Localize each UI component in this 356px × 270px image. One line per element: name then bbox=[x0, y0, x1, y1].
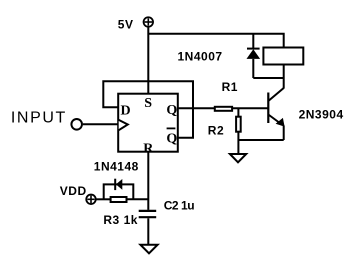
wire relay box bottom to collector bbox=[283, 66, 285, 89]
svg-text:R3 1k: R3 1k bbox=[103, 213, 138, 227]
wire Q output to R1 bbox=[178, 107, 215, 109]
svg-text:S: S bbox=[144, 96, 152, 111]
resistor R3 bbox=[111, 197, 127, 202]
power terminal 5V bbox=[144, 17, 154, 27]
wire feedback Qbar to D bbox=[103, 81, 193, 137]
wire R1 to base bbox=[232, 107, 268, 109]
svg-text:INPUT: INPUT bbox=[11, 110, 67, 127]
input terminal bbox=[71, 119, 82, 130]
flip-flop U1 bbox=[118, 94, 178, 152]
svg-text:R: R bbox=[143, 142, 154, 157]
wire diode top branch bbox=[252, 34, 254, 49]
wire emitter to ground rail bbox=[238, 139, 283, 141]
wire VDD to R3 bbox=[96, 198, 110, 200]
wire 5V rail to relay branch bbox=[148, 34, 283, 47]
svg-text:2N3904: 2N3904 bbox=[299, 108, 344, 122]
power terminal VDD bbox=[86, 195, 96, 205]
svg-text:5V: 5V bbox=[118, 18, 134, 32]
wire diode bottom to collector branch bbox=[253, 77, 283, 79]
svg-text:VDD: VDD bbox=[60, 184, 87, 198]
pin Qbar bbox=[166, 128, 177, 146]
diode D1 1N4007 bbox=[247, 49, 261, 78]
svg-text:Q: Q bbox=[166, 132, 177, 147]
wire base node down to R2 bbox=[237, 108, 239, 117]
svg-text:C2 1u: C2 1u bbox=[164, 199, 195, 213]
svg-text:Q: Q bbox=[166, 103, 177, 118]
svg-text:1N4007: 1N4007 bbox=[178, 50, 223, 64]
wire C2 to ground bbox=[147, 218, 149, 244]
relay coil box bbox=[263, 48, 303, 65]
wire R2 to ground bbox=[237, 132, 239, 154]
ground right bbox=[230, 154, 246, 162]
transistor Q1 2N3904 bbox=[268, 88, 284, 140]
capacitor C2 bbox=[139, 211, 157, 217]
diode D2 1N4148 bbox=[115, 179, 122, 190]
wire R pin down to C2 bbox=[147, 152, 149, 210]
resistor R2 bbox=[236, 117, 241, 132]
svg-text:1N4148: 1N4148 bbox=[94, 159, 139, 173]
ground bottom bbox=[140, 245, 157, 254]
wire input to clock bbox=[83, 123, 118, 125]
resistor R1 bbox=[215, 107, 232, 111]
svg-text:R2: R2 bbox=[208, 124, 224, 138]
wire 5V terminal down to S pin bbox=[147, 27, 149, 93]
svg-text:R1: R1 bbox=[222, 80, 238, 94]
wire diode parallel loop bbox=[104, 184, 134, 199]
wire R3 to R pin node bbox=[127, 198, 149, 200]
svg-text:D: D bbox=[121, 103, 131, 118]
